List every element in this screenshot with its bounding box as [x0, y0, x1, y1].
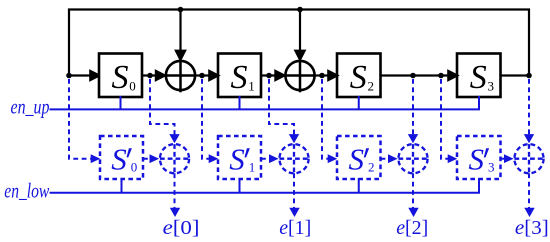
register S3' (shadow)	[457, 136, 501, 179]
svg-text:S: S	[349, 142, 365, 177]
register S0	[99, 54, 142, 98]
wire en_low line	[50, 178, 480, 193]
register S1	[218, 54, 261, 98]
wire drop to XOR1' top	[269, 79, 299, 143]
register S2	[337, 54, 381, 98]
xor gate X2	[285, 61, 314, 92]
node S2 output	[410, 73, 416, 79]
wire en_low stub S2'	[358, 178, 360, 193]
wire S3' to XOR3'	[501, 154, 514, 163]
xor gate X3' (dashed)	[514, 144, 543, 173]
register S3	[457, 54, 501, 98]
node feedback tap 1	[178, 7, 184, 13]
wire XOR2 to S2	[315, 71, 338, 80]
wire error output e[3]	[524, 173, 534, 217]
wire en_low stub S1'	[239, 178, 241, 193]
wire S1 to XOR2	[261, 71, 284, 80]
svg-text:e[1]: e[1]	[279, 217, 311, 239]
xor gate X2' (dashed)	[398, 144, 427, 173]
node S3 input	[438, 73, 444, 79]
svg-text:S: S	[470, 59, 487, 96]
wire S2 to S3	[381, 71, 458, 80]
wire en_up line	[50, 96, 480, 109]
wire error output e[1]	[289, 173, 299, 217]
wire S2' to XOR2'	[381, 154, 398, 163]
svg-text:3: 3	[488, 159, 495, 174]
xor gate X0' (dashed)	[160, 144, 189, 173]
wire drop to S1' input	[202, 79, 218, 163]
wire tap into XOR 1	[176, 10, 185, 60]
svg-text:e[0]: e[0]	[163, 217, 200, 239]
wire error output e[2]	[408, 173, 418, 217]
wire en_up stub S1	[239, 96, 241, 109]
xor gate X1	[166, 61, 195, 92]
node S1 input	[199, 73, 205, 79]
node feedback tap 2	[297, 7, 303, 13]
node S2 input	[319, 73, 325, 79]
wire drop to S2' input	[322, 79, 337, 163]
wire en_up stub S0	[120, 96, 122, 109]
wire tap into XOR 2	[295, 10, 304, 60]
wire XOR1 to S1	[195, 71, 218, 80]
register S2' (shadow)	[337, 136, 381, 179]
wire S1' to XOR1'	[261, 154, 279, 163]
svg-text:en_low: en_low	[4, 179, 49, 203]
svg-text:1: 1	[249, 159, 256, 174]
wire S0 to XOR1	[142, 71, 165, 80]
svg-text:0: 0	[131, 159, 138, 174]
wire drop to XOR2' top	[408, 79, 418, 143]
wire into S0	[69, 71, 99, 80]
svg-text:0: 0	[129, 79, 136, 94]
svg-text:S: S	[229, 142, 245, 177]
register S0' (shadow)	[100, 136, 143, 179]
wire error output e[0]	[170, 173, 180, 217]
svg-text:e[2]: e[2]	[396, 217, 428, 239]
wire S0' to XOR0'	[143, 154, 159, 163]
svg-text:3: 3	[488, 79, 495, 94]
svg-text:S: S	[111, 142, 127, 177]
svg-text:en_up: en_up	[11, 95, 50, 119]
wire drop to S0' input	[69, 79, 100, 163]
svg-text:S: S	[231, 59, 248, 96]
wire en_up stub S2	[358, 96, 360, 109]
svg-text:S: S	[112, 59, 129, 96]
node input S0	[66, 73, 72, 79]
svg-text:2: 2	[368, 79, 375, 94]
node S1 output	[266, 73, 272, 79]
svg-text:S: S	[469, 142, 485, 177]
svg-text:e[3]: e[3]	[515, 217, 549, 239]
xor gate X1' (dashed)	[279, 144, 308, 173]
svg-text:S: S	[350, 59, 367, 96]
wire feedback top line	[69, 10, 529, 76]
wire en_low stub S0'	[121, 178, 123, 193]
svg-text:1: 1	[248, 79, 255, 94]
register S1' (shadow)	[218, 136, 261, 179]
wire drop to S3' input	[441, 79, 457, 163]
wire drop to XOR3' top	[524, 79, 534, 143]
node S3 output	[526, 73, 532, 79]
wire S3 output	[501, 74, 530, 76]
node S0 output	[147, 73, 153, 79]
svg-text:2: 2	[368, 159, 375, 174]
wire drop to XOR0' top	[150, 79, 180, 143]
